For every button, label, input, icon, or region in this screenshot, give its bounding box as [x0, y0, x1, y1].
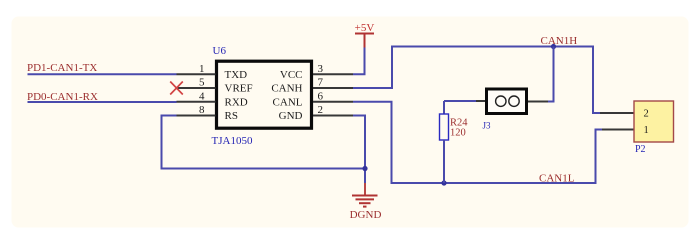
svg-text:6: 6: [318, 90, 324, 102]
svg-text:GND: GND: [279, 110, 303, 122]
svg-text:VCC: VCC: [280, 69, 303, 81]
pin 7 CANH: [271, 77, 353, 95]
IC U6 body: [217, 61, 312, 128]
svg-text:TXD: TXD: [225, 69, 248, 81]
junction CANH/J3: [551, 44, 556, 49]
pin 1 TXD: [177, 63, 248, 81]
ground DGND: [350, 183, 382, 221]
wire CANL net: [353, 102, 602, 183]
resistor R24: [440, 101, 449, 183]
svg-text:DGND: DGND: [350, 209, 382, 221]
svg-text:5: 5: [199, 77, 205, 89]
wire PD0-CAN1-RX: [28, 101, 177, 103]
power +5V: [355, 22, 375, 48]
svg-text:RS: RS: [225, 110, 238, 122]
wire R24 to J3: [444, 100, 476, 102]
svg-text:7: 7: [318, 77, 324, 89]
no-connect X on pin 5: [170, 82, 183, 95]
svg-text:4: 4: [199, 90, 205, 102]
wire CANH net: [353, 47, 600, 114]
pin 4 RXD: [177, 90, 248, 108]
pin 5 VREF: [177, 77, 253, 95]
junction ground rail: [362, 166, 367, 171]
svg-text:P2: P2: [635, 144, 646, 155]
svg-text:+5V: +5V: [355, 22, 375, 34]
svg-text:1: 1: [199, 63, 205, 75]
pin 6 CANL: [273, 90, 353, 108]
wire RS to ground rail: [162, 116, 366, 169]
svg-text:CAN1H: CAN1H: [541, 35, 578, 47]
wire GND to ground rail: [353, 116, 365, 184]
svg-text:J3: J3: [483, 121, 492, 131]
pin 2 GND: [279, 104, 353, 122]
svg-text:2: 2: [644, 109, 649, 120]
svg-text:2: 2: [318, 104, 324, 116]
svg-text:CAN1L: CAN1L: [539, 173, 575, 185]
svg-text:PD1-CAN1-TX: PD1-CAN1-TX: [27, 62, 97, 74]
svg-text:RXD: RXD: [225, 96, 248, 108]
pin 8 RS: [177, 104, 238, 122]
svg-text:U6: U6: [213, 45, 227, 57]
jumper J3: [476, 89, 548, 114]
pin 3 VCC: [280, 63, 353, 81]
junction CANL/R24: [441, 180, 446, 185]
svg-text:120: 120: [450, 128, 466, 139]
svg-text:CANL: CANL: [273, 96, 303, 108]
wire J3 to CANH: [548, 47, 554, 102]
connector P2: [600, 101, 674, 142]
svg-text:CANH: CANH: [271, 83, 302, 95]
svg-text:8: 8: [199, 104, 205, 116]
svg-text:3: 3: [318, 63, 324, 75]
svg-text:VREF: VREF: [225, 83, 253, 95]
svg-text:PD0-CAN1-RX: PD0-CAN1-RX: [27, 91, 98, 103]
wire PD1-CAN1-TX: [28, 73, 177, 75]
wire VCC to +5V: [353, 48, 365, 75]
svg-text:1: 1: [644, 125, 649, 136]
svg-text:TJA1050: TJA1050: [212, 135, 253, 147]
